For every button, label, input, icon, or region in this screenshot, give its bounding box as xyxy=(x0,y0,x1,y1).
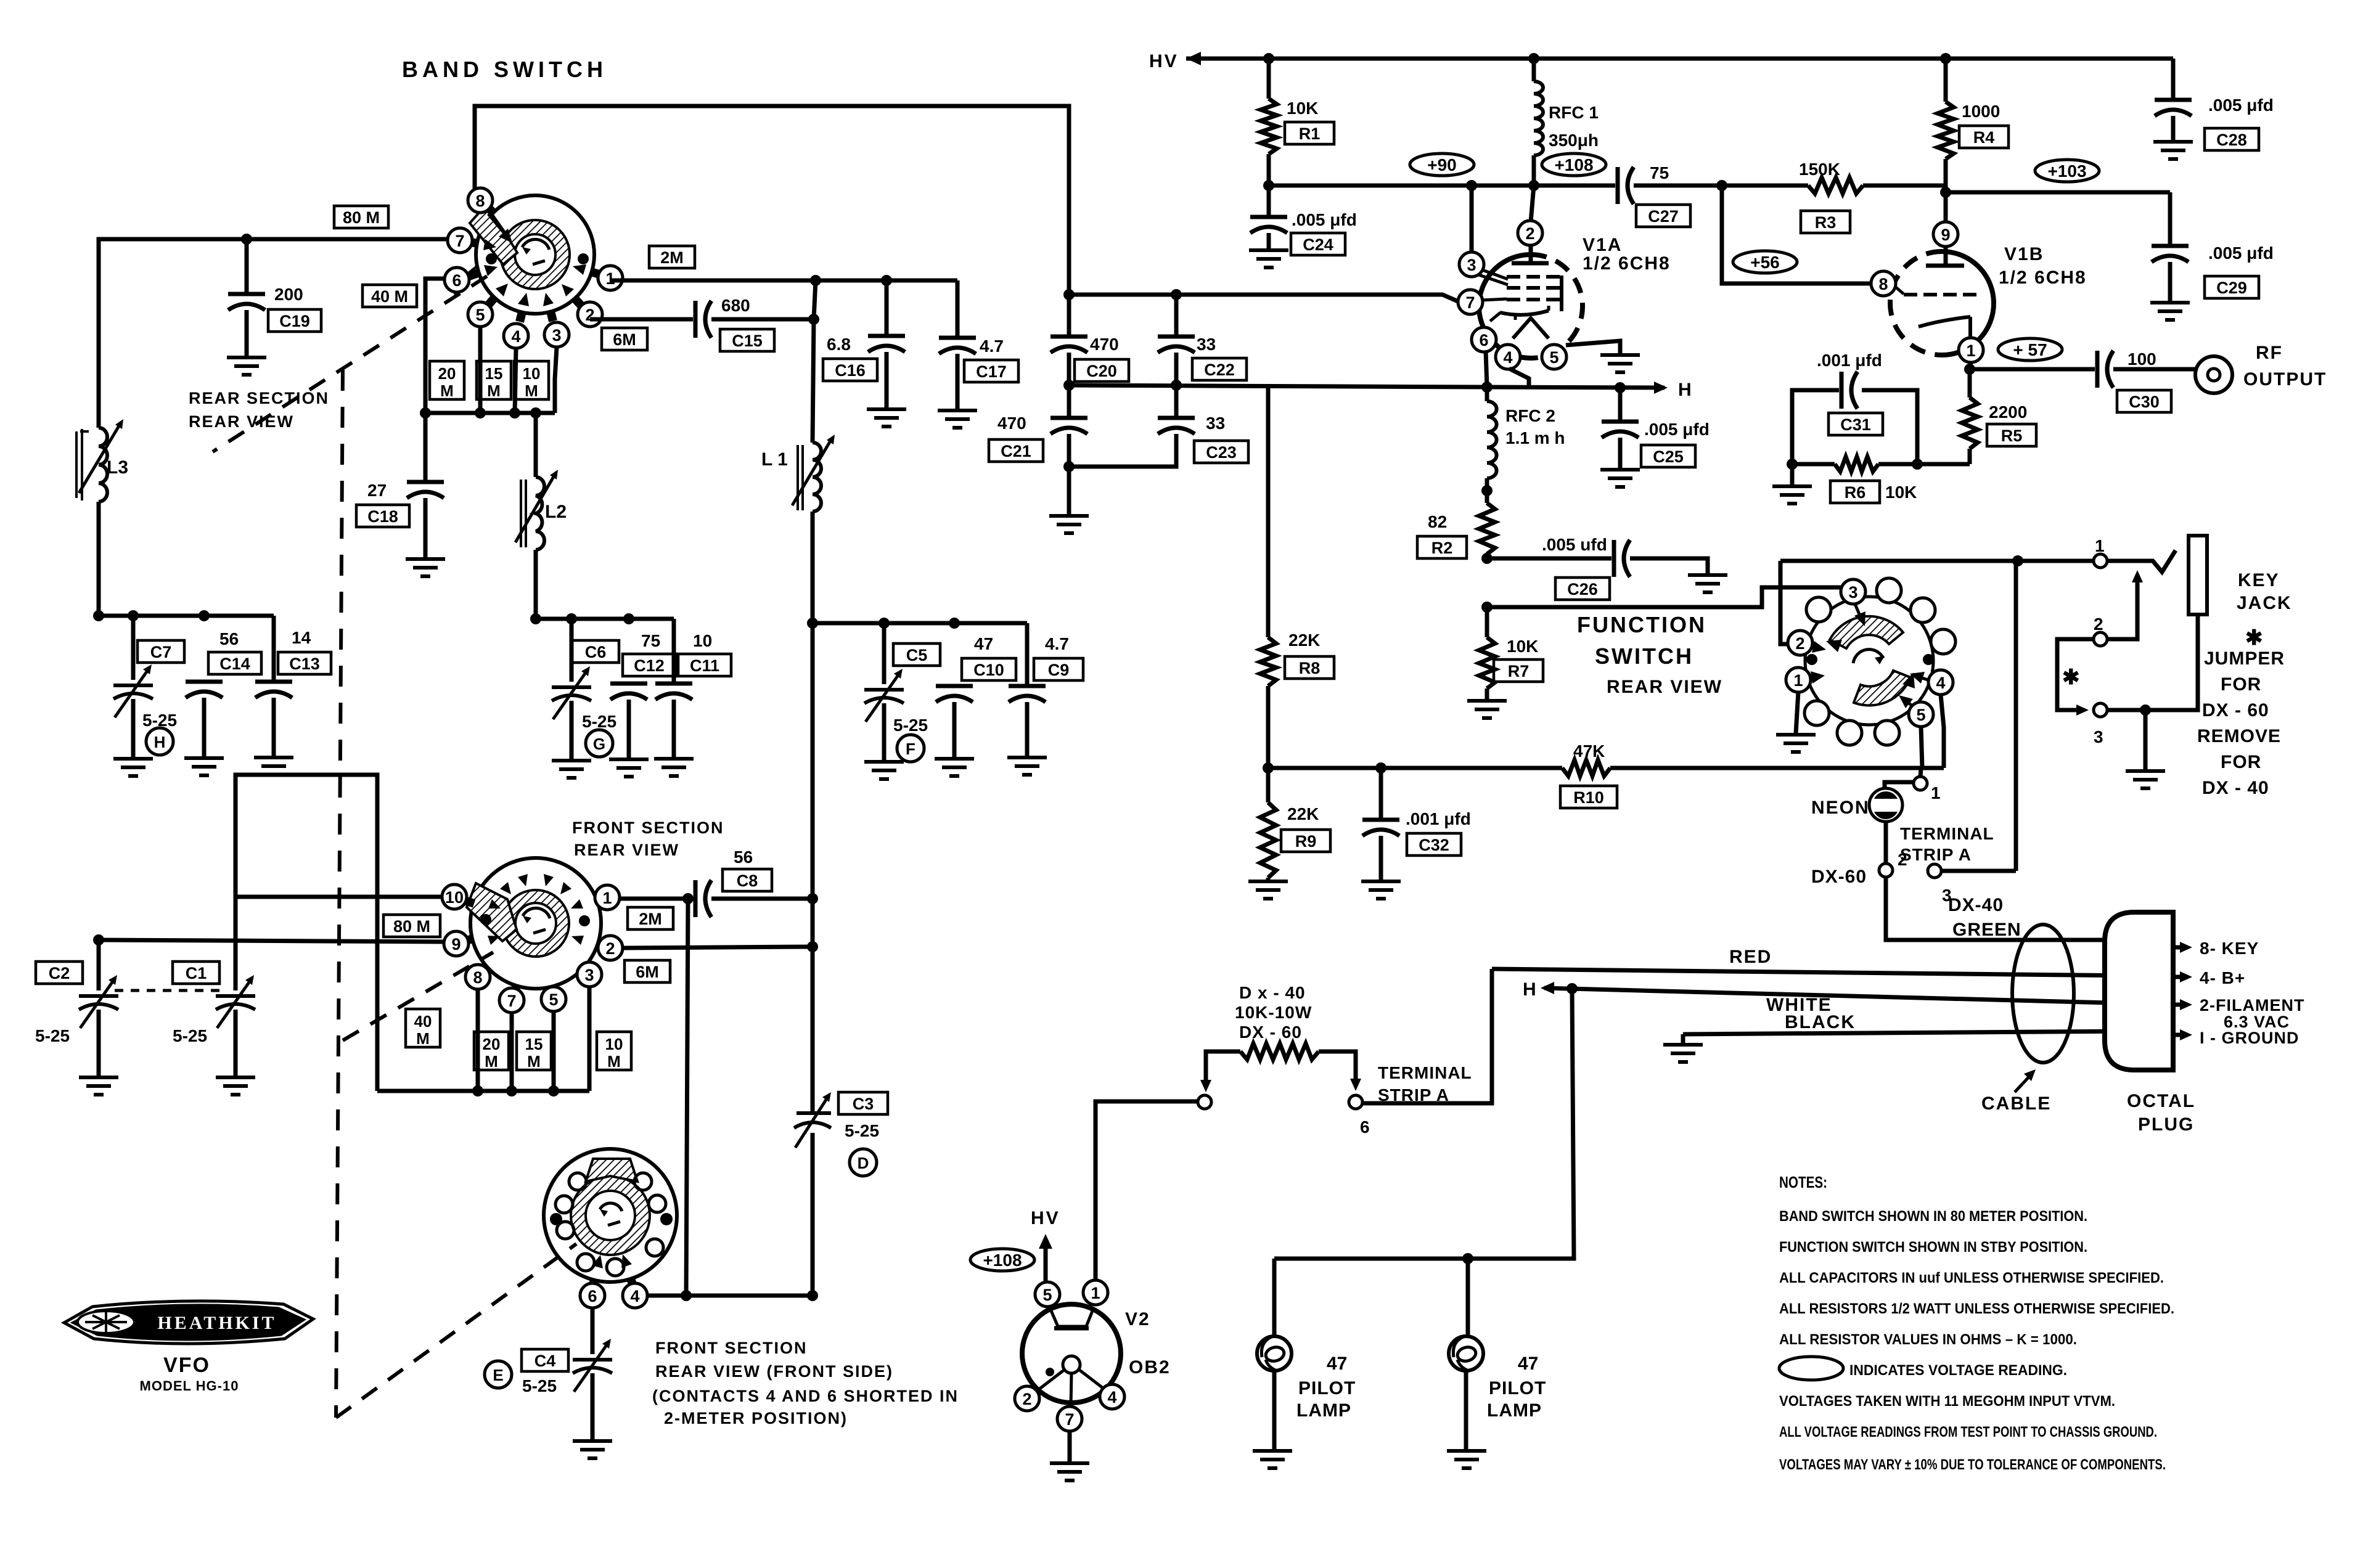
label DX-40 jack xyxy=(2202,778,2269,798)
junction 40M c xyxy=(548,1085,559,1096)
band switch rear section body xyxy=(476,195,594,314)
capacitor C19 xyxy=(228,239,265,356)
junction C26 node xyxy=(1481,553,1493,564)
junction C22 top xyxy=(1171,289,1182,300)
svg-text:7: 7 xyxy=(1465,293,1475,312)
label V1A type xyxy=(1583,253,1671,274)
label C28 value xyxy=(2208,96,2274,115)
wire pin3 down xyxy=(555,347,557,413)
wire pin10 route xyxy=(235,895,443,899)
svg-text:H: H xyxy=(1678,380,1692,400)
wire vertical main xyxy=(813,280,816,1296)
label C12 value xyxy=(641,631,660,650)
function switch rotor arrow xyxy=(1853,650,1885,664)
label RFC2 value xyxy=(1505,428,1565,447)
label OB2 xyxy=(1129,1357,1171,1378)
label R10 xyxy=(1560,786,1617,808)
wire plus90 line xyxy=(1269,186,1472,253)
svg-text:R1: R1 xyxy=(1299,125,1321,143)
svg-text:1/2 6CH8: 1/2 6CH8 xyxy=(1583,253,1671,274)
wire neon to strip2 xyxy=(1884,822,1888,864)
junction HV R4 xyxy=(1940,53,1951,64)
wire band pin8 to C20 node xyxy=(475,106,1069,295)
wire pin9 stem xyxy=(1944,192,1948,223)
svg-text:RFC 1: RFC 1 xyxy=(1549,103,1599,122)
terminal 1 key xyxy=(2094,536,2107,568)
asterisk label xyxy=(2245,626,2263,650)
wire mid pin5 down xyxy=(552,1011,556,1091)
label 80M mid xyxy=(383,915,440,937)
label R6 value xyxy=(1885,483,1917,502)
svg-text:L 1: L 1 xyxy=(761,449,788,470)
V1A grid rows xyxy=(1507,276,1562,311)
svg-text:REMOVE: REMOVE xyxy=(2197,726,2281,746)
label C19 value xyxy=(274,285,303,304)
label RFC1 value xyxy=(1549,131,1599,150)
svg-text:NOTES:: NOTES: xyxy=(1779,1173,1827,1191)
wire y625 line xyxy=(1069,385,1487,387)
wire lamp2 gnd xyxy=(1464,1371,1468,1450)
svg-text:HV: HV xyxy=(1149,51,1179,71)
label V2 xyxy=(1125,1309,1150,1329)
svg-text:SWITCH: SWITCH xyxy=(1595,643,1693,669)
svg-text:DX-40: DX-40 xyxy=(1948,895,2004,915)
label C3 xyxy=(838,1092,888,1114)
function switch pin 5 xyxy=(1899,695,1933,727)
wire lamp bus xyxy=(1274,989,1574,1259)
neon lamp xyxy=(1869,788,1902,822)
rear section label xyxy=(189,389,329,407)
terminal 3 key xyxy=(2094,703,2107,746)
svg-text:R8: R8 xyxy=(1299,659,1321,677)
svg-text:33: 33 xyxy=(1206,414,1225,433)
svg-text:1.1 m h: 1.1 m h xyxy=(1505,428,1565,447)
wire key2 up xyxy=(2107,570,2143,639)
band switch pin 1 xyxy=(598,266,623,290)
middle switch pin 7 xyxy=(499,988,524,1013)
svg-text:100: 100 xyxy=(2128,349,2156,369)
svg-text:G: G xyxy=(593,735,605,753)
svg-text:56: 56 xyxy=(734,847,753,867)
svg-text:.005 μfd: .005 μfd xyxy=(2208,96,2274,115)
label C2 xyxy=(36,962,83,984)
svg-text:L2: L2 xyxy=(545,502,567,522)
wire H line xyxy=(1487,387,1665,388)
junction C23 top xyxy=(1171,380,1182,391)
wire key3 ground xyxy=(2144,710,2148,770)
H arrow out xyxy=(1654,380,1692,400)
V1A pin 6 xyxy=(1472,327,1496,352)
svg-text:PILOT: PILOT xyxy=(1489,1378,1546,1399)
function switch wiper lower xyxy=(1854,671,1915,705)
junction bank C6 xyxy=(566,613,577,624)
ground C29 xyxy=(2150,303,2190,320)
wire 40M bus xyxy=(377,1089,589,1093)
label 6.3 VAC xyxy=(2224,1013,2290,1031)
octal plug body xyxy=(2105,912,2173,1070)
label C15 xyxy=(720,329,774,351)
label TERMINAL STRIP A 2 xyxy=(1378,1063,1472,1105)
note function switch xyxy=(1779,1239,2087,1256)
band switch title xyxy=(402,57,607,82)
svg-text:6M: 6M xyxy=(636,963,659,981)
ground function pin1 xyxy=(1776,735,1816,752)
V1A grid1 funnel xyxy=(1479,269,1508,285)
note vtvm xyxy=(1779,1393,2115,1410)
svg-text:5: 5 xyxy=(1042,1286,1052,1304)
svg-text:10: 10 xyxy=(445,888,464,907)
svg-text:.005 μfd: .005 μfd xyxy=(2208,243,2274,263)
label R2 xyxy=(1417,536,1467,558)
capacitor C26 xyxy=(1614,540,1708,577)
middle switch pin 10 xyxy=(442,884,467,909)
V2 plate xyxy=(1050,1308,1094,1328)
svg-text:(CONTACTS 4 AND 6 SHORTED I: (CONTACTS 4 AND 6 SHORTED IN xyxy=(652,1387,959,1405)
svg-text:2: 2 xyxy=(1795,634,1804,653)
svg-text:2M: 2M xyxy=(639,910,662,928)
ground C17 xyxy=(938,410,977,428)
svg-text:1: 1 xyxy=(2095,536,2105,555)
svg-text:R4: R4 xyxy=(1973,128,1995,147)
svg-text:H: H xyxy=(1523,979,1536,1000)
svg-text:C27: C27 xyxy=(1648,207,1679,226)
svg-text:TERMINAL: TERMINAL xyxy=(1378,1063,1472,1082)
wire key3 right xyxy=(2107,708,2198,713)
label C9 xyxy=(1034,658,1083,680)
svg-text:10K: 10K xyxy=(1507,637,1538,656)
svg-text:F: F xyxy=(906,740,915,758)
svg-text:3: 3 xyxy=(584,966,594,984)
label PILOT lamp1 xyxy=(1298,1378,1356,1399)
label C23 xyxy=(1194,441,1248,463)
svg-text:6.8: 6.8 xyxy=(827,335,851,354)
label C16 xyxy=(823,359,877,381)
pilot lamp 1 xyxy=(1257,1336,1292,1371)
label RFC1 name xyxy=(1549,103,1599,122)
svg-text:DX-60: DX-60 xyxy=(1811,867,1867,887)
label C9 value xyxy=(1045,634,1069,653)
ground C12 xyxy=(609,759,649,777)
svg-text:RED: RED xyxy=(1729,947,1772,967)
label C11 xyxy=(678,654,731,676)
svg-text:C16: C16 xyxy=(835,361,866,380)
label R3 value xyxy=(1799,160,1840,179)
svg-text:2: 2 xyxy=(1525,224,1534,243)
svg-text:1: 1 xyxy=(1091,1284,1100,1302)
V1A grid3 lead xyxy=(1481,299,1507,300)
svg-text:RFC 2: RFC 2 xyxy=(1505,406,1555,425)
note band switch xyxy=(1779,1208,2087,1225)
wire pin5 down xyxy=(478,327,483,413)
svg-text:.005 μfd: .005 μfd xyxy=(1644,420,1710,439)
svg-text:REAR VIEW: REAR VIEW xyxy=(574,841,679,859)
note voltage oval xyxy=(1779,1357,2067,1380)
svg-text:C4: C4 xyxy=(534,1352,556,1370)
junction L1 bank xyxy=(807,618,818,629)
V1A cathode xyxy=(1490,306,1549,321)
wire func1 ground xyxy=(1796,692,1798,733)
wire R10 line xyxy=(1268,766,1944,770)
svg-text:R7: R7 xyxy=(1508,662,1530,680)
label V1B type xyxy=(1999,267,2087,288)
V1A plate xyxy=(1512,245,1549,263)
ground C25 xyxy=(1600,470,1640,487)
band switch dashes at pin6 xyxy=(454,265,478,295)
label C26 value xyxy=(1542,535,1607,554)
svg-text:OB2: OB2 xyxy=(1129,1357,1171,1378)
svg-text:2: 2 xyxy=(605,939,615,958)
capacitor C24 xyxy=(1250,186,1287,249)
middle switch pin 8 xyxy=(465,965,490,989)
svg-text:5: 5 xyxy=(1549,348,1558,367)
junction 2M b xyxy=(881,275,892,286)
svg-text:C31: C31 xyxy=(1840,415,1871,434)
label R11 DX-40 xyxy=(1239,983,1306,1002)
svg-text:10K: 10K xyxy=(1287,99,1318,118)
label R4 value xyxy=(1962,102,2000,121)
junction bank C14 xyxy=(199,610,210,621)
svg-text:C13: C13 xyxy=(289,655,320,673)
octal arrow 8-KEY xyxy=(2173,939,2259,958)
svg-text:27: 27 xyxy=(367,481,387,500)
svg-text:REAR VIEW: REAR VIEW xyxy=(189,412,294,431)
label C29 value xyxy=(2208,243,2274,263)
ground C26 xyxy=(1688,575,1727,592)
junction bus c xyxy=(509,407,520,419)
svg-text:C6: C6 xyxy=(585,643,607,661)
svg-text:4: 4 xyxy=(1936,674,1945,692)
label 6M top xyxy=(602,328,647,350)
label C1 range xyxy=(173,1026,207,1045)
svg-text:R3: R3 xyxy=(1815,213,1837,232)
oval +103 xyxy=(2035,160,2099,182)
label C25 value xyxy=(1644,420,1710,439)
svg-text:22K: 22K xyxy=(1287,804,1319,823)
svg-text:NEON: NEON xyxy=(1811,798,1870,818)
label 15M top xyxy=(477,361,511,400)
svg-text:5-25: 5-25 xyxy=(522,1376,557,1395)
svg-text:H: H xyxy=(154,733,166,751)
ground C18 xyxy=(406,559,445,576)
label C4 range xyxy=(522,1376,557,1395)
label GREEN xyxy=(1952,920,2021,940)
note capacitors xyxy=(1779,1270,2164,1286)
function switch label3 xyxy=(1607,677,1722,697)
svg-text:M: M xyxy=(525,382,538,400)
octal arrow 4-B+ xyxy=(2173,968,2245,987)
wire middle bank bus xyxy=(536,617,674,621)
junction bus a xyxy=(420,407,431,419)
svg-text:HV: HV xyxy=(1031,1208,1060,1228)
svg-text:REAR VIEW (FRONT SIDE): REAR VIEW (FRONT SIDE) xyxy=(655,1362,893,1381)
svg-text:5-25: 5-25 xyxy=(845,1121,879,1140)
note readings xyxy=(1779,1424,2157,1440)
label 20M mid xyxy=(474,1032,509,1071)
resistor R10 xyxy=(1562,760,1610,776)
capacitor C20 xyxy=(1050,295,1087,385)
svg-text:R6: R6 xyxy=(1845,483,1866,502)
junction pin2 wire xyxy=(807,941,818,952)
label C18 value xyxy=(367,481,387,500)
svg-text:+103: +103 xyxy=(2047,161,2086,181)
band switch wiper arrows xyxy=(483,214,586,306)
junction C23 bottom xyxy=(1063,461,1075,472)
svg-text:9: 9 xyxy=(1941,226,1950,244)
label R3 xyxy=(1801,211,1850,233)
svg-text:D: D xyxy=(858,1154,869,1172)
svg-text:C15: C15 xyxy=(732,332,763,350)
svg-text:PILOT: PILOT xyxy=(1298,1378,1356,1399)
svg-text:BAND SWITCH SHOWN IN 80 METER: BAND SWITCH SHOWN IN 80 METER POSITION. xyxy=(1779,1208,2087,1225)
label REMOVE xyxy=(2197,726,2281,746)
wire L3 to bank xyxy=(97,502,101,616)
junction R8 R9 xyxy=(1263,762,1274,774)
logo model xyxy=(140,1378,239,1394)
label 40M mid xyxy=(406,1009,440,1048)
capacitor C11 xyxy=(655,619,692,757)
label LAMP lamp2 xyxy=(1487,1400,1542,1421)
V1B cathode xyxy=(1919,317,1970,338)
junction bank C5 xyxy=(878,618,890,629)
svg-text:3: 3 xyxy=(1467,256,1476,274)
capacitor C7 variable xyxy=(113,616,153,757)
label C6 range xyxy=(582,712,616,731)
junction C19 xyxy=(241,234,252,245)
label C21 value xyxy=(997,414,1026,433)
svg-text:10K: 10K xyxy=(1885,483,1917,502)
svg-text:C12: C12 xyxy=(634,656,665,675)
label C10 value xyxy=(974,634,993,653)
svg-text:C22: C22 xyxy=(1204,361,1235,379)
capacitor C13 xyxy=(255,682,292,756)
label CABLE xyxy=(1981,1069,2051,1114)
HV arrow xyxy=(1186,52,1269,65)
label LAMP lamp1 xyxy=(1296,1400,1351,1421)
capacitor C16 xyxy=(868,280,905,408)
wire lamp1 stem xyxy=(1272,1259,1277,1337)
junction key3 xyxy=(2140,704,2151,716)
svg-text:C10: C10 xyxy=(973,661,1004,679)
label C18 xyxy=(356,505,409,527)
svg-text:C3: C3 xyxy=(853,1095,874,1113)
svg-text:+108: +108 xyxy=(983,1251,1022,1270)
ground C4 xyxy=(573,1441,612,1458)
wire right bank bus xyxy=(813,621,1027,626)
function switch pin 2 xyxy=(1788,631,1826,655)
label RED xyxy=(1729,947,1772,967)
wire pin9 80M xyxy=(99,940,444,942)
junction R6 left xyxy=(1787,459,1798,470)
junction pin4 c3 xyxy=(807,1290,818,1301)
test point F xyxy=(897,735,924,762)
junction 40M b xyxy=(506,1085,517,1096)
label C3 range xyxy=(845,1121,879,1140)
svg-text:.001 μfd: .001 μfd xyxy=(1406,809,1471,828)
svg-text:2M: 2M xyxy=(660,248,684,267)
svg-text:M: M xyxy=(607,1052,621,1071)
svg-text:75: 75 xyxy=(1650,163,1669,182)
svg-text:M: M xyxy=(416,1029,430,1048)
label R7 value xyxy=(1507,637,1538,656)
svg-text:8: 8 xyxy=(1878,275,1888,293)
middle switch pin 2 xyxy=(598,936,623,960)
svg-text:FUNCTION: FUNCTION xyxy=(1577,612,1706,637)
svg-text:9: 9 xyxy=(451,935,461,953)
middle switch pin 3 xyxy=(577,962,602,987)
wire key2 left xyxy=(2057,639,2094,716)
junction bank C12 xyxy=(623,613,634,624)
tube V1B xyxy=(1890,251,1994,355)
label 2M mid xyxy=(628,907,673,929)
V2 dot xyxy=(1046,1368,1054,1376)
label PLUG xyxy=(2138,1114,2194,1135)
band switch pin 6 xyxy=(444,267,469,292)
label C4 xyxy=(522,1349,568,1371)
junction bank C7 xyxy=(128,610,139,621)
band switch pin 3 xyxy=(544,322,569,347)
octal arrow 2-FILAMENT xyxy=(2173,996,2304,1015)
svg-text:C11: C11 xyxy=(690,656,719,675)
junction R1 HV xyxy=(1263,53,1274,64)
svg-text:2200: 2200 xyxy=(1989,402,2027,422)
label R6 xyxy=(1830,481,1880,503)
ground C11 xyxy=(654,759,694,776)
label C8 xyxy=(723,869,772,891)
svg-text:33: 33 xyxy=(1197,335,1216,354)
ground R7 xyxy=(1467,701,1507,718)
wire mid pin7 down xyxy=(510,1013,514,1091)
terminal strip1 xyxy=(1914,768,1941,802)
svg-text:C17: C17 xyxy=(976,362,1007,381)
svg-text:5-25: 5-25 xyxy=(893,716,928,735)
svg-text:+56: +56 xyxy=(1750,253,1780,272)
capacitor C17 xyxy=(939,280,976,409)
label C14 value xyxy=(219,629,239,648)
capacitor C25 xyxy=(1602,388,1639,468)
junction C8 right xyxy=(807,893,818,904)
resistor R4 xyxy=(1938,59,1954,192)
V1A pin 7 xyxy=(1458,290,1483,314)
svg-text:LAMP: LAMP xyxy=(1296,1400,1351,1421)
terminal R11 left xyxy=(1095,1095,1211,1109)
function switch lug circles xyxy=(1804,578,1956,745)
V1A pin 2 xyxy=(1518,221,1542,245)
capacitor C28 xyxy=(2155,59,2192,141)
svg-text:7: 7 xyxy=(507,992,516,1010)
wire pin10 riser xyxy=(235,775,377,1091)
svg-text:8: 8 xyxy=(475,192,485,210)
svg-text:6: 6 xyxy=(588,1287,597,1305)
label 10M mid xyxy=(597,1032,631,1071)
label L1 xyxy=(761,449,788,470)
svg-text:C1: C1 xyxy=(186,964,207,982)
function switch dot right xyxy=(1923,654,1934,665)
wire C2 stem xyxy=(97,940,101,990)
junction C25 xyxy=(1615,382,1626,393)
dashed leader band switch xyxy=(213,276,487,452)
svg-text:1: 1 xyxy=(602,889,612,907)
svg-text:+108: +108 xyxy=(1554,155,1593,174)
label R10 value xyxy=(1573,741,1605,761)
resistor R2 xyxy=(1479,478,1495,558)
dashed link bottom switch xyxy=(336,1244,576,1418)
wire 80M from pin 7 xyxy=(99,239,448,428)
front side label1 xyxy=(655,1339,808,1357)
svg-text:C9: C9 xyxy=(1048,661,1070,679)
svg-text:C5: C5 xyxy=(906,646,928,664)
test point H xyxy=(146,728,173,755)
svg-text:3: 3 xyxy=(552,326,561,345)
